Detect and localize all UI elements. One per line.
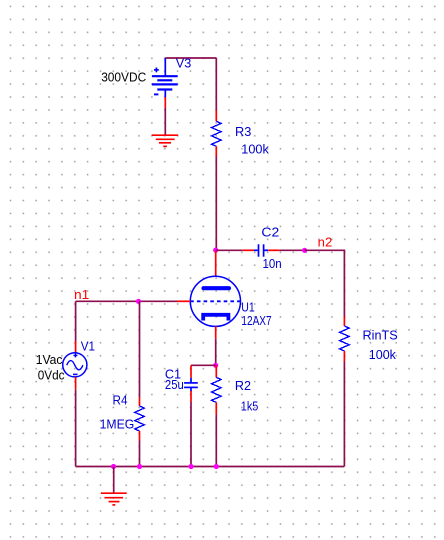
wire C1 to bottom bus [190,402,192,467]
pin U1 cathode [215,326,217,338]
svg-text:R3: R3 [235,124,251,139]
ground (bottom) [101,493,127,505]
ground (below V3) [152,135,179,146]
svg-text:12AX7: 12AX7 [241,313,271,328]
wire R3 to plate node [215,157,217,250]
svg-text:10n: 10n [263,256,282,271]
wire n2 to RinTS [305,250,345,316]
wire cathode to node [215,339,217,366]
svg-text:V1: V1 [81,339,95,354]
wire n1 horizontal [76,300,177,302]
pin RinTS top [343,317,345,327]
node junction n2 [302,248,307,253]
svg-text:0Vdc: 0Vdc [38,368,65,383]
wire bus to ground 2 [113,467,115,494]
svg-text:100k: 100k [241,142,269,157]
svg-text:100k: 100k [369,347,397,362]
resistor R3 [212,121,222,146]
wire node to C2 [216,249,243,251]
wire top bus V3+ to R3 [165,57,216,59]
wire n1 down to V1 [75,301,77,341]
resistor RinTS [340,326,350,351]
wire R4 to bottom bus [139,441,141,467]
node junction n1/R4 [136,299,141,304]
wire V3 to ground [164,108,166,135]
svg-text:25u: 25u [165,377,184,392]
pin R2 bottom [215,402,217,414]
svg-text:R2: R2 [235,378,251,393]
pin V1 minus [75,377,77,390]
svg-text:1Vac: 1Vac [36,352,63,367]
node junction bus-C1 [188,464,193,469]
pin R3 bottom [215,146,217,156]
svg-text:V3: V3 [176,56,192,71]
wire node to C1 [191,364,216,366]
svg-text:C2: C2 [261,224,279,239]
wire bottom bus [76,466,345,468]
pin U1 grid [177,300,190,302]
wire RinTS to bottom bus [343,362,345,467]
node junction bus-R2 [214,464,219,469]
svg-text:1k5: 1k5 [241,399,258,414]
pin RinTS bottom [343,351,345,362]
svg-text:R4: R4 [113,393,128,408]
wire R4 top [139,301,141,397]
wire V1 to bottom bus [75,390,77,467]
node junction cathode [213,363,218,368]
node junction bus-R4 [137,464,142,469]
svg-text:RinTS: RinTS [363,327,399,342]
wire C2 to n2 [279,249,304,251]
svg-text:n2: n2 [318,235,333,250]
pin C2 left [243,249,254,251]
pin C2 right [268,249,279,251]
source V1 (1Vac 0Vdc) [63,353,87,377]
svg-text:n1: n1 [74,287,89,302]
resistor R2 [212,377,222,402]
voltage source V3 (300VDC battery) [152,58,178,97]
node junction bus-ground [111,464,116,469]
svg-text:1MEG: 1MEG [100,417,135,432]
pin U1 plate [215,251,217,276]
node junction (plate / C2) [213,248,218,253]
pin C1 top [190,365,192,378]
pin V1 plus [75,341,77,353]
capacitor C1 [184,378,198,392]
pin R4 bottom [139,431,141,441]
capacitor C2 [254,244,268,256]
pin R4 top [139,398,141,407]
pin R2 top [215,365,217,377]
pin V3 minus [164,97,166,108]
triode U1 (12AX7) [190,276,240,326]
wire R2 to bottom bus [215,414,217,466]
pin R3 top [215,111,217,122]
pin C1 bottom [190,391,192,402]
resistor R4 [135,406,145,431]
svg-text:300VDC: 300VDC [101,69,146,84]
wire R3 top [215,58,217,111]
